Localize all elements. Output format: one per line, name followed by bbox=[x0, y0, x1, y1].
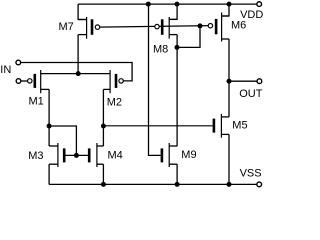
transistor M5 (NMOS output) bbox=[214, 114, 229, 138]
node VDD junction dot left bbox=[146, 2, 151, 7]
transistor M9 (NMOS) bbox=[162, 143, 177, 167]
svg-text:OUT: OUT bbox=[239, 88, 263, 100]
svg-text:IN: IN bbox=[0, 64, 11, 76]
node OUT dot bbox=[227, 79, 232, 84]
svg-text:M6: M6 bbox=[231, 20, 246, 32]
wire M8 drain down to M9 drain bbox=[176, 35, 178, 147]
svg-text:VSS: VSS bbox=[240, 167, 262, 179]
wire VSS rail bbox=[49, 183, 257, 185]
node VSS dot M4 bbox=[101, 182, 106, 187]
wire mirror node to gates bbox=[49, 126, 76, 155]
node VSS dot M9 bbox=[175, 182, 180, 187]
node gate bus dot bbox=[198, 23, 203, 28]
terminal VSS bbox=[257, 182, 262, 187]
wire M6 source riser bbox=[222, 4, 229, 16]
node VDD junction dot right bbox=[227, 2, 232, 7]
wire M3 source down to VSS bbox=[48, 164, 50, 184]
transistor M7 (PMOS, mirrored) bbox=[78, 17, 100, 39]
wire M7 drain to tail bbox=[77, 35, 79, 74]
wire M9 source down to VSS bbox=[176, 164, 178, 184]
svg-text:M7: M7 bbox=[59, 21, 74, 33]
node VDD junction dot middle bbox=[175, 2, 180, 7]
transistor M2 (PMOS input, mirrored) bbox=[103, 70, 123, 93]
wire M8 drain to gate bus bbox=[177, 26, 200, 48]
svg-text:M9: M9 bbox=[181, 149, 196, 161]
terminal IN upper bbox=[16, 60, 21, 65]
wire IN lower to M1 gate bbox=[21, 80, 28, 82]
wire M2 drain down bbox=[102, 89, 104, 126]
wire M3 drain up bbox=[48, 126, 50, 146]
wire M5 source down to VSS bbox=[228, 134, 230, 184]
wire M9 gate riser from VDD rail bbox=[149, 4, 161, 155]
wire M1 drain down bbox=[48, 89, 50, 126]
node M2/M4 dot bbox=[101, 124, 106, 129]
wire M4 drain up bbox=[102, 126, 104, 146]
node M3/M4 gate dot bbox=[74, 153, 79, 158]
transistor M4 (NMOS) bbox=[89, 143, 103, 167]
svg-text:M5: M5 bbox=[232, 120, 247, 132]
svg-text:M4: M4 bbox=[108, 149, 123, 161]
wire gate bus M7-M8-M6 bbox=[98, 26, 211, 28]
node M1/M3 dot bbox=[47, 124, 52, 129]
transistor M6 (PMOS, output driver) bbox=[208, 13, 229, 42]
svg-text:M1: M1 bbox=[29, 96, 44, 108]
wire M4 source down to VSS bbox=[102, 164, 104, 184]
wire M8 source riser bbox=[169, 4, 177, 19]
wire M5 gate line bbox=[103, 125, 212, 127]
node VSS dot M5 bbox=[227, 182, 232, 187]
svg-text:M3: M3 bbox=[28, 150, 43, 162]
node M8 drain dot bbox=[175, 45, 180, 50]
wire M7 source riser bbox=[78, 4, 87, 19]
terminal IN lower bbox=[16, 79, 21, 84]
terminal OUT bbox=[257, 79, 262, 84]
node tail dot bbox=[76, 71, 81, 76]
svg-text:M2: M2 bbox=[107, 97, 122, 109]
wire tail line M1/M2 sources bbox=[41, 73, 110, 75]
wire VDD rail bbox=[78, 3, 257, 5]
transistor M3 (NMOS, mirrored) bbox=[49, 143, 88, 167]
transistor M8 (PMOS) bbox=[155, 17, 177, 39]
wire IN to M2 gate bbox=[21, 63, 132, 81]
svg-text:M8: M8 bbox=[153, 44, 168, 56]
wire M6 drain to OUT to M5 drain bbox=[228, 39, 230, 117]
wire OUT bbox=[229, 80, 257, 82]
transistor M1 (PMOS input) bbox=[28, 70, 50, 93]
terminal VDD bbox=[257, 2, 262, 7]
